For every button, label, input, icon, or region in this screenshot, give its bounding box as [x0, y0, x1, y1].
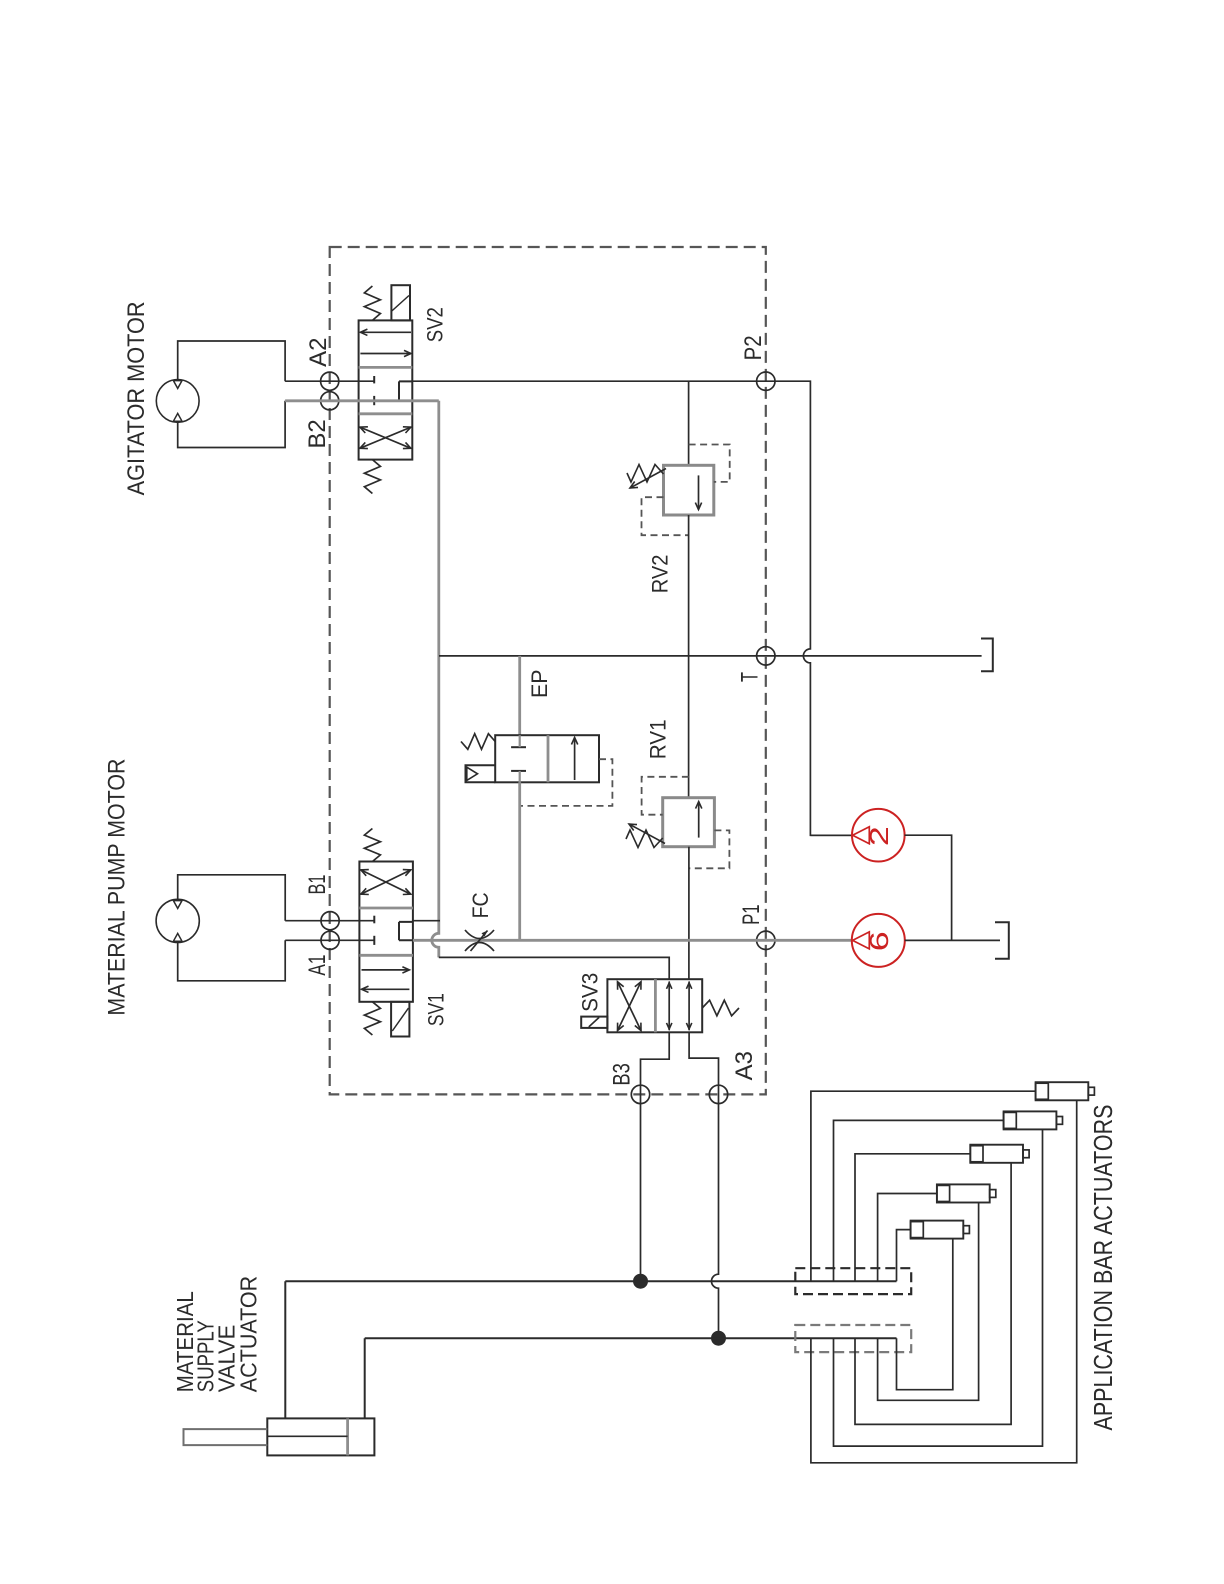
SV2 blocked port tick B2 [373, 396, 375, 405]
valve SV2 body [359, 320, 413, 459]
svg-text:SV2: SV2 [423, 307, 448, 342]
junction dot A3 header [711, 1331, 726, 1346]
wire agitator motor port2 to B2 [178, 401, 285, 448]
SV1 spring top [364, 829, 380, 862]
svg-text:FC: FC [468, 892, 493, 918]
wire B3 branch to cylinder 3 cap [855, 1154, 970, 1281]
SV1 blocked port tick B1 [373, 916, 375, 924]
svg-text:2: 2 [864, 826, 894, 846]
port A2 circle [321, 372, 339, 390]
cylinder application bar actuator 1 body [1036, 1082, 1089, 1100]
A3 distribution connector (dashed) [795, 1325, 911, 1352]
EP pilot dashed line [520, 759, 613, 806]
RV1 flow arrow [698, 802, 700, 838]
EP pilot triangle [467, 767, 478, 780]
EP flow arrow [574, 738, 576, 781]
wire EP bottom to P1 line [518, 782, 521, 940]
valve SV2 divider 2 [359, 412, 413, 415]
supply actuator rod centerline [267, 1435, 347, 1437]
wire A3 branch loop to cylinder 4 rod side [878, 1203, 979, 1401]
SV3 straight path 1 [668, 982, 670, 1031]
SV1 parallel arrow right [362, 969, 410, 971]
wire A3 header [365, 1337, 897, 1339]
wire T trunk [439, 655, 982, 657]
wire A3 branch loop to cylinder 5 rod side [897, 1239, 953, 1390]
cylinder 5 piston box [911, 1222, 924, 1238]
gauge 2 triangle [853, 827, 870, 844]
wire B1 into SV1 [285, 920, 374, 922]
valve SV2 divider 1 [359, 366, 413, 369]
wire A2 into SV2 [285, 380, 374, 382]
valve SV1 divider 1 [359, 907, 413, 910]
valve EP divider [547, 735, 550, 782]
wire B2 return vertical (gray) with hop over A1 line [432, 401, 439, 958]
cylinder 3 rod nub [1023, 1150, 1029, 1158]
SV1 solenoid box [391, 1002, 409, 1037]
EP blocked tick bottom [511, 770, 526, 772]
cylinder 5 rod nub [963, 1226, 969, 1234]
test point gauge 6 circle [852, 914, 905, 967]
wire B3 header drop to supply actuator cap [284, 1281, 286, 1418]
valve SV1 divider 2 [359, 954, 413, 957]
port A3 circle [709, 1085, 727, 1103]
svg-text:A3: A3 [731, 1051, 758, 1080]
port B1 circle [321, 912, 339, 930]
svg-text:A1: A1 [304, 955, 331, 976]
tank symbol T [981, 639, 993, 672]
B3 distribution connector (dashed) [795, 1268, 911, 1294]
SV1 spring bottom [364, 1002, 380, 1035]
wire gauge 2 inlet [810, 834, 852, 836]
wire A1-P1 gray trunk [413, 939, 852, 942]
SV2 parallel arrow up-box right [360, 353, 411, 355]
svg-text:T: T [737, 672, 764, 682]
test point gauge 2 circle [852, 809, 905, 862]
wire B3 branch to cylinder 5 cap [897, 1230, 911, 1282]
port P2 circle [757, 372, 775, 390]
wire B3 header [285, 1280, 896, 1282]
SV3 solenoid diagonal [589, 1017, 599, 1027]
wire B3 branch to cylinder 1 cap [811, 1091, 1036, 1281]
SV1 blocked port tick A1 [373, 936, 375, 945]
SV3 spring right [702, 1000, 739, 1016]
wire pump motor port1 to B1 [178, 875, 286, 921]
EP blocked tick top [511, 746, 526, 748]
SV2 solenoid diagonal [392, 296, 409, 312]
wire agitator motor port1 to A2 [178, 341, 285, 381]
wire P2 trunk from SV2 to gauge 2 [412, 381, 852, 835]
wire gauge 2 to P1 line [905, 835, 952, 940]
valve SV1 body [359, 862, 413, 1002]
EP port stub top [519, 735, 521, 747]
svg-text:B3: B3 [609, 1063, 636, 1086]
RV1 spring [626, 830, 663, 848]
RV2 pilot dashed right [689, 445, 730, 482]
port B2 circle [321, 392, 339, 410]
cylinder 1 rod nub [1088, 1087, 1094, 1095]
RV2 spring [627, 465, 664, 483]
RV2 flow arrow [698, 475, 700, 509]
wire A1 into SV1 [285, 939, 374, 941]
wire B2 gray line through SV2 [285, 399, 439, 402]
cylinder application bar actuator 4 body [937, 1184, 990, 1202]
wire B1 stub to tank vertical [413, 920, 440, 922]
cylinder 4 piston box [937, 1185, 950, 1201]
wire B3 branch to cylinder 4 cap [878, 1194, 937, 1282]
svg-text:SV3: SV3 [578, 973, 603, 1012]
SV1 parallel arrow left [362, 988, 410, 990]
RV1 adjust arrow [629, 824, 665, 844]
svg-text:P1: P1 [738, 904, 765, 925]
wire A3 branch loop to cylinder 3 rod side [855, 1163, 1011, 1425]
junction dot B3 header [633, 1274, 648, 1289]
cylinder application bar actuator 5 body [911, 1221, 964, 1239]
tank symbol at P1 drain [995, 922, 1009, 959]
FC adjust arrow [471, 931, 488, 952]
wire RV2 inlet from P2 trunk [688, 381, 690, 465]
svg-text:RV1: RV1 [646, 719, 671, 759]
wire SV3 to A3 port (hop over B3 header) [689, 1032, 718, 1338]
supply actuator piston [346, 1418, 349, 1455]
agitator motor triangle top [173, 381, 182, 389]
EP pilot box [466, 765, 496, 782]
wire pump motor port2 to A1 [178, 940, 286, 981]
svg-text:APPLICATION BAR ACTUATORS: APPLICATION BAR ACTUATORS [1088, 1105, 1118, 1431]
wire SV3 to B3 port [641, 1032, 670, 1281]
gauge 6 triangle [853, 932, 870, 949]
wire EP top line from T trunk [518, 656, 521, 735]
valve EP body [495, 735, 599, 782]
SV2 spring top [364, 286, 380, 320]
pump motor triangle bottom [173, 933, 182, 941]
RV1 pilot dashed left [642, 777, 689, 815]
wire RV2 outlet to RV1 inlet (crosses T) [688, 515, 690, 798]
SV1 crossed arrows [361, 870, 411, 894]
supply actuator rod [184, 1429, 268, 1445]
RV2 pilot dashed left [642, 497, 689, 535]
valve SV3 body [607, 979, 702, 1032]
SV3 solenoid box [581, 1017, 607, 1028]
wire A3 branch loop to cylinder 2 rod side [834, 1129, 1043, 1446]
EP port stub bottom [519, 771, 521, 782]
SV2 solenoid box [391, 285, 410, 320]
EP spring left [461, 734, 495, 750]
SV2 blocked port tick A2 [373, 376, 375, 383]
port P1 circle [757, 931, 775, 949]
RV1 pilot dashed right [689, 830, 730, 868]
svg-text:RV2: RV2 [648, 555, 673, 594]
svg-text:SV1: SV1 [424, 993, 449, 1026]
cylinder 3 piston box [970, 1146, 983, 1162]
cylinder 4 rod nub [990, 1190, 996, 1198]
FC orifice arc bottom [465, 943, 494, 952]
RV2 adjust arrow [630, 469, 666, 489]
wire A3 branch loop to cylinder 1 rod side [811, 1100, 1077, 1463]
FC orifice arc top [465, 930, 494, 939]
SV2 spring bottom [364, 460, 380, 494]
svg-text:B2: B2 [304, 419, 331, 448]
relief valve RV2 body [664, 465, 714, 515]
cylinder 2 piston box [1004, 1112, 1017, 1128]
agitator motor triangle bottom [173, 413, 182, 421]
material pump motor M1 circle [156, 899, 199, 942]
cylinder application bar actuator 3 body [970, 1145, 1023, 1163]
port A1 circle [321, 931, 339, 949]
SV2 parallel arrow up-box left [360, 331, 411, 333]
cylinder material supply valve actuator body [267, 1418, 374, 1455]
wire B3 branch to cylinder 2 cap [834, 1120, 1004, 1281]
svg-text:B1: B1 [304, 875, 331, 895]
svg-text:A2: A2 [305, 338, 332, 367]
manifold block boundary (dashed) [330, 247, 766, 1094]
svg-text:6: 6 [864, 931, 894, 951]
pump motor triangle top [173, 901, 182, 909]
port T circle [757, 647, 775, 665]
cylinder 1 piston box [1036, 1083, 1049, 1099]
SV3 crossed arrows [618, 982, 642, 1031]
SV1 solenoid diagonal [392, 1008, 408, 1031]
cylinder application bar actuator 2 body [1004, 1111, 1057, 1129]
svg-text:ACTUATOR: ACTUATOR [236, 1276, 262, 1392]
agitator motor M2 circle [156, 380, 199, 423]
valve SV3 divider [654, 979, 657, 1032]
svg-text:EP: EP [527, 669, 552, 698]
svg-text:P2: P2 [740, 335, 767, 360]
cylinder 2 rod nub [1056, 1117, 1062, 1125]
port B3 circle [631, 1085, 649, 1103]
relief valve RV1 body [663, 798, 715, 847]
wire A3 header drop to supply actuator rod side [364, 1338, 366, 1418]
SV2 crossed arrows [360, 427, 411, 448]
SV1 center notch rect [399, 922, 413, 940]
wire tank line to SV3 [439, 957, 669, 979]
svg-text:AGITATOR MOTOR: AGITATOR MOTOR [123, 301, 150, 495]
wire gauge 6 to tank [905, 939, 1000, 941]
SV3 straight path 2 [688, 982, 690, 1031]
SV2 center notch rect [399, 381, 412, 400]
svg-text:MATERIAL PUMP MOTOR: MATERIAL PUMP MOTOR [103, 759, 130, 1016]
wire RV1 outlet down to SV3 P (crosses P1 line) [688, 847, 690, 980]
